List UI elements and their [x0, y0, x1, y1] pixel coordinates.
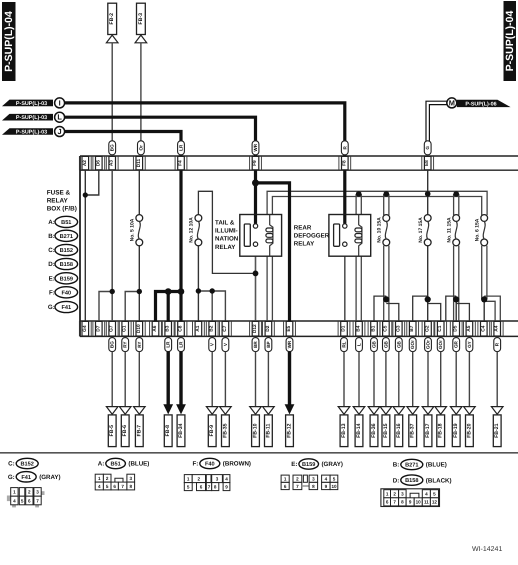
svg-text:RELAY: RELAY	[47, 198, 69, 205]
svg-text:(BLUE): (BLUE)	[426, 462, 447, 469]
svg-text:2: 2	[393, 492, 396, 497]
svg-text:F40: F40	[61, 290, 71, 296]
svg-text:4: 4	[98, 484, 101, 489]
svg-text:RY: RY	[137, 341, 142, 347]
svg-text:FB-36: FB-36	[371, 423, 377, 438]
svg-text:B271: B271	[405, 463, 418, 469]
svg-text:(BLUE): (BLUE)	[128, 461, 149, 468]
svg-text:4: 4	[13, 498, 16, 503]
svg-text:GOr: GOr	[426, 340, 431, 349]
svg-text:RELAY: RELAY	[294, 241, 315, 248]
svg-text:No. 5 10A: No. 5 10A	[130, 218, 136, 241]
svg-text:No. 6 15A: No. 6 15A	[474, 218, 480, 241]
svg-text:6: 6	[28, 498, 31, 503]
svg-text:LR: LR	[179, 144, 184, 151]
svg-text:F40: F40	[205, 462, 215, 468]
svg-text:9: 9	[325, 484, 328, 489]
svg-text:8: 8	[130, 484, 133, 489]
svg-text:I: I	[59, 98, 61, 107]
svg-text:B152: B152	[21, 462, 34, 468]
svg-text:B51: B51	[110, 462, 120, 468]
svg-text:5: 5	[333, 477, 336, 482]
svg-text:7: 7	[36, 498, 39, 503]
svg-text:No. 17 15A: No. 17 15A	[418, 217, 424, 243]
svg-text:GR: GR	[454, 340, 459, 348]
svg-text:10: 10	[416, 500, 422, 505]
svg-text:A:: A:	[48, 219, 55, 226]
svg-text:B152: B152	[60, 248, 73, 254]
svg-text:E8: E8	[424, 160, 430, 166]
svg-text:G4: G4	[82, 325, 88, 332]
svg-text:FB-18: FB-18	[438, 423, 444, 438]
svg-text:F9: F9	[252, 160, 258, 166]
svg-text:TAIL &: TAIL &	[215, 220, 235, 227]
svg-text:9: 9	[225, 484, 228, 489]
svg-text:REAR: REAR	[294, 225, 312, 232]
svg-text:B1: B1	[371, 325, 377, 331]
svg-text:C4: C4	[480, 325, 486, 331]
svg-text:C8: C8	[178, 325, 184, 331]
svg-text:WR: WR	[253, 143, 258, 151]
svg-text:L: L	[57, 113, 62, 122]
svg-text:D12: D12	[252, 324, 258, 333]
svg-text:1: 1	[386, 492, 389, 497]
svg-text:F41: F41	[61, 305, 71, 311]
svg-text:FUSE &: FUSE &	[47, 190, 71, 197]
svg-text:D:: D:	[393, 477, 400, 484]
svg-text:BOX (F/B): BOX (F/B)	[47, 206, 77, 213]
svg-text:G1: G1	[122, 325, 128, 332]
svg-text:LR: LR	[166, 341, 171, 348]
svg-text:D7: D7	[95, 325, 101, 331]
svg-text:D6: D6	[95, 160, 101, 166]
svg-text:FB-19: FB-19	[453, 423, 459, 438]
svg-text:3: 3	[312, 477, 315, 482]
svg-text:4: 4	[225, 476, 228, 481]
svg-text:B159: B159	[302, 462, 315, 468]
svg-text:F8: F8	[341, 160, 347, 166]
svg-text:FB-5: FB-5	[109, 425, 115, 437]
svg-text:A:: A:	[98, 461, 105, 468]
svg-text:WI-14241: WI-14241	[472, 546, 502, 553]
svg-text:FB-6: FB-6	[122, 425, 128, 437]
svg-text:2: 2	[198, 476, 201, 481]
svg-text:M: M	[449, 98, 455, 107]
svg-text:E5: E5	[286, 325, 292, 331]
svg-text:(BROWN): (BROWN)	[223, 461, 251, 468]
svg-text:A6: A6	[152, 325, 158, 331]
svg-text:B3: B3	[165, 325, 171, 331]
svg-text:B2: B2	[209, 325, 215, 331]
svg-text:FB-12: FB-12	[287, 423, 293, 438]
svg-text:1: 1	[187, 476, 190, 481]
svg-text:GY: GY	[467, 341, 472, 348]
svg-text:GB: GB	[383, 340, 388, 348]
svg-text:A3: A3	[109, 160, 115, 166]
svg-text:C7: C7	[222, 325, 228, 331]
svg-text:L: L	[357, 343, 362, 346]
svg-text:DEFOGGER: DEFOGGER	[294, 233, 330, 240]
svg-text:A4: A4	[494, 325, 500, 331]
svg-text:FB-20: FB-20	[466, 423, 472, 438]
svg-text:P-SUP(L)-04: P-SUP(L)-04	[3, 11, 15, 72]
svg-text:A1: A1	[195, 325, 201, 331]
svg-text:FB-37: FB-37	[410, 423, 416, 438]
svg-text:E:: E:	[291, 461, 297, 468]
svg-text:GB: GB	[372, 340, 377, 348]
svg-text:(GRAY): (GRAY)	[39, 474, 60, 481]
svg-text:FB-11: FB-11	[265, 424, 271, 438]
svg-text:G:: G:	[48, 304, 55, 311]
svg-text:NATION: NATION	[215, 236, 239, 243]
svg-text:8: 8	[401, 500, 404, 505]
svg-text:8: 8	[214, 484, 217, 489]
svg-text:6: 6	[113, 484, 116, 489]
svg-text:6: 6	[284, 484, 287, 489]
svg-text:P-SUP(L)-04: P-SUP(L)-04	[504, 11, 516, 72]
svg-text:D5: D5	[453, 325, 459, 331]
svg-text:GOr: GOr	[410, 340, 415, 349]
svg-text:7: 7	[121, 484, 124, 489]
svg-text:5: 5	[21, 498, 24, 503]
svg-text:1: 1	[284, 477, 287, 482]
svg-text:6: 6	[200, 484, 203, 489]
svg-text:F:: F:	[49, 290, 55, 297]
svg-text:FB-13: FB-13	[341, 423, 347, 438]
svg-text:D10: D10	[136, 324, 142, 333]
svg-text:BP: BP	[266, 341, 271, 347]
svg-text:F:: F:	[192, 461, 198, 468]
svg-text:G:: G:	[8, 474, 15, 481]
svg-text:F41: F41	[21, 475, 31, 481]
svg-text:J: J	[58, 127, 62, 136]
svg-text:BG: BG	[110, 341, 115, 348]
svg-text:9: 9	[409, 500, 412, 505]
svg-text:5: 5	[433, 492, 436, 497]
svg-text:B158: B158	[405, 478, 418, 484]
svg-text:No. 11 15A: No. 11 15A	[446, 217, 452, 243]
svg-text:P-SUP(L)-06: P-SUP(L)-06	[465, 101, 496, 107]
svg-text:7: 7	[296, 484, 299, 489]
svg-text:F4: F4	[178, 160, 184, 166]
svg-text:ILLUMI-: ILLUMI-	[215, 228, 238, 235]
svg-text:8: 8	[312, 484, 315, 489]
svg-text:A5: A5	[466, 325, 472, 331]
svg-text:3: 3	[216, 476, 219, 481]
svg-text:G: G	[425, 146, 430, 150]
svg-text:3: 3	[401, 492, 404, 497]
svg-text:B158: B158	[60, 262, 73, 268]
svg-text:P-SUP(L)-03: P-SUP(L)-03	[16, 101, 47, 107]
svg-text:10: 10	[331, 484, 337, 489]
svg-text:FB-34: FB-34	[178, 423, 184, 438]
svg-text:LR: LR	[179, 341, 184, 348]
svg-text:2: 2	[28, 490, 31, 495]
svg-text:11: 11	[424, 500, 429, 505]
svg-text:FB-14: FB-14	[356, 423, 362, 438]
svg-text:4: 4	[425, 492, 428, 497]
svg-text:RL: RL	[342, 341, 347, 347]
svg-text:BG: BG	[110, 144, 115, 151]
svg-text:3: 3	[130, 476, 133, 481]
svg-text:D2: D2	[265, 325, 271, 331]
svg-text:BR: BR	[253, 341, 258, 348]
svg-text:7: 7	[208, 484, 211, 489]
svg-text:FB-9: FB-9	[209, 425, 215, 437]
svg-text:G3: G3	[395, 325, 401, 332]
svg-text:C:: C:	[48, 247, 55, 254]
svg-text:6: 6	[386, 500, 389, 505]
svg-text:G2: G2	[425, 325, 431, 332]
svg-text:FB-3: FB-3	[138, 13, 144, 25]
svg-text:2: 2	[106, 476, 109, 481]
svg-text:C:: C:	[8, 461, 15, 468]
svg-text:RY: RY	[123, 341, 128, 347]
svg-text:FB-16: FB-16	[396, 423, 402, 438]
svg-text:A2: A2	[82, 160, 88, 166]
svg-text:FB-7: FB-7	[136, 425, 142, 437]
svg-text:3: 3	[36, 490, 39, 495]
svg-text:B51: B51	[61, 220, 71, 226]
svg-text:No. 10 15A: No. 10 15A	[377, 217, 383, 243]
svg-text:FB-8: FB-8	[165, 425, 171, 437]
svg-text:WR: WR	[287, 340, 292, 348]
svg-text:RELAY: RELAY	[215, 244, 236, 251]
svg-text:No. 12 10A: No. 12 10A	[189, 217, 195, 243]
svg-text:D11: D11	[136, 159, 142, 168]
svg-text:B271: B271	[60, 234, 73, 240]
svg-text:GOr: GOr	[438, 340, 443, 349]
svg-text:E:: E:	[49, 276, 55, 283]
svg-text:5: 5	[187, 484, 190, 489]
svg-text:FB-21: FB-21	[494, 423, 500, 438]
svg-text:C5: C5	[382, 325, 388, 331]
svg-text:1: 1	[13, 490, 16, 495]
svg-text:P-SUP(L)-03: P-SUP(L)-03	[16, 115, 47, 121]
svg-text:GB: GB	[396, 340, 401, 348]
svg-text:B:: B:	[48, 233, 55, 240]
svg-text:B159: B159	[60, 276, 73, 282]
svg-text:5: 5	[106, 484, 109, 489]
svg-text:B4: B4	[356, 325, 362, 331]
svg-text:Or: Or	[138, 145, 143, 151]
svg-text:D1: D1	[341, 325, 347, 331]
svg-text:7: 7	[393, 500, 396, 505]
svg-text:G7: G7	[109, 325, 115, 332]
svg-text:FB-10: FB-10	[253, 423, 259, 438]
svg-text:12: 12	[432, 500, 438, 505]
svg-text:FB-2: FB-2	[109, 13, 115, 25]
svg-text:1: 1	[98, 476, 101, 481]
svg-text:2: 2	[296, 477, 299, 482]
svg-text:P-SUP(L)-03: P-SUP(L)-03	[16, 129, 47, 135]
svg-text:B7: B7	[409, 325, 415, 331]
svg-text:D:: D:	[48, 261, 55, 268]
svg-text:C1: C1	[437, 325, 443, 331]
svg-text:B:: B:	[393, 462, 400, 469]
svg-text:(BLACK): (BLACK)	[426, 477, 452, 484]
svg-text:FB-35: FB-35	[222, 423, 228, 438]
svg-text:(GRAY): (GRAY)	[322, 461, 343, 468]
svg-text:FB-15: FB-15	[383, 423, 389, 438]
svg-text:FB-17: FB-17	[425, 423, 431, 438]
svg-text:4: 4	[325, 477, 328, 482]
